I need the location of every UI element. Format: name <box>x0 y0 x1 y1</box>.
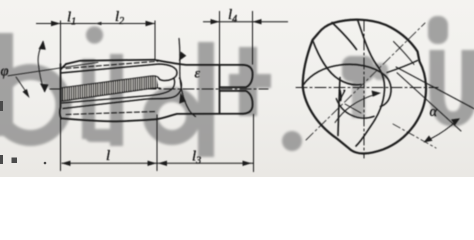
gamma arrow <box>335 94 378 123</box>
dimensions <box>36 11 288 172</box>
flute back top <box>313 40 362 85</box>
epsilon arrow mid <box>179 93 186 104</box>
phi arc arrow top <box>39 41 46 50</box>
shank square joint <box>219 65 221 114</box>
spiral left flute <box>304 64 392 106</box>
thread root dashed bottom <box>66 112 156 115</box>
chamfer angle line <box>8 62 98 76</box>
alpha arc arrow low <box>424 136 433 143</box>
centerline tap axis <box>50 88 268 90</box>
epsilon arc <box>179 39 196 117</box>
centerline end view horizontal <box>296 87 438 89</box>
svg-text:α: α <box>430 104 438 120</box>
square top tongue <box>220 65 253 87</box>
svg-text:l: l <box>106 148 110 164</box>
dim line l1 l2 <box>36 23 155 25</box>
end view <box>303 20 474 154</box>
arrow l2 right <box>146 21 156 26</box>
outer silhouette <box>303 20 426 154</box>
svg-text:ε: ε <box>195 67 201 82</box>
centerline end view diagonal <box>306 23 425 140</box>
ext line square right <box>252 11 254 65</box>
square bottom tongue <box>220 91 253 114</box>
watermark bibt.ru <box>0 16 469 157</box>
hatch bottom boundary <box>62 88 161 101</box>
svg-text:γ: γ <box>339 85 346 102</box>
arrow l4 left <box>211 19 220 24</box>
arrow l1 left <box>51 21 61 26</box>
cutting face right flute <box>387 61 418 73</box>
cutting face top flute <box>332 23 357 50</box>
ext line square right bottom <box>253 114 255 172</box>
phi arc arrow bottom <box>40 84 49 93</box>
cutting face bottom flute <box>338 78 340 136</box>
dim line l4 <box>203 21 288 23</box>
hatch top boundary <box>62 76 159 88</box>
spiral right flute <box>356 20 385 147</box>
gamma arrow head <box>372 91 382 97</box>
lower flute edge upper <box>62 79 175 104</box>
epsilon arrow top <box>179 52 187 62</box>
gamma tail line <box>345 104 361 113</box>
core arc <box>336 99 374 118</box>
ext line l2 right <box>154 21 156 60</box>
arrow l right <box>148 161 157 166</box>
dim line l l3 <box>62 162 254 164</box>
tap left edge <box>60 64 61 118</box>
thread root dashed top <box>66 61 158 68</box>
alpha arc <box>426 120 458 142</box>
alpha line lower <box>397 73 461 131</box>
ext line square left <box>219 11 221 65</box>
scan specks <box>0 101 46 164</box>
phi leader line <box>16 77 26 91</box>
thread hatch band <box>62 75 159 101</box>
ext line body left top <box>60 21 62 65</box>
ext line thread end bottom <box>156 115 158 172</box>
arrow l1 mid <box>95 22 102 25</box>
alpha arc arrow high <box>451 118 460 125</box>
arrow l left <box>62 161 71 166</box>
phi arc <box>38 42 44 92</box>
arrow l4 right <box>253 19 262 24</box>
centerline end view vertical <box>363 20 365 158</box>
centerline stub lower right <box>393 124 436 148</box>
svg-text:φ: φ <box>1 64 9 80</box>
arrow l3 right <box>243 161 252 166</box>
lower flute edge lower <box>63 78 181 109</box>
ext line body left bottom <box>60 119 62 172</box>
tap bottom edge <box>61 114 243 122</box>
upper flute edge <box>61 64 178 81</box>
tap top edge <box>66 60 243 65</box>
arrow l3 left <box>158 161 167 166</box>
alpha line upper <box>396 67 474 109</box>
phi leader arrow <box>23 89 30 98</box>
relief line upper right <box>394 42 415 65</box>
tap top left chamfer <box>61 64 67 70</box>
